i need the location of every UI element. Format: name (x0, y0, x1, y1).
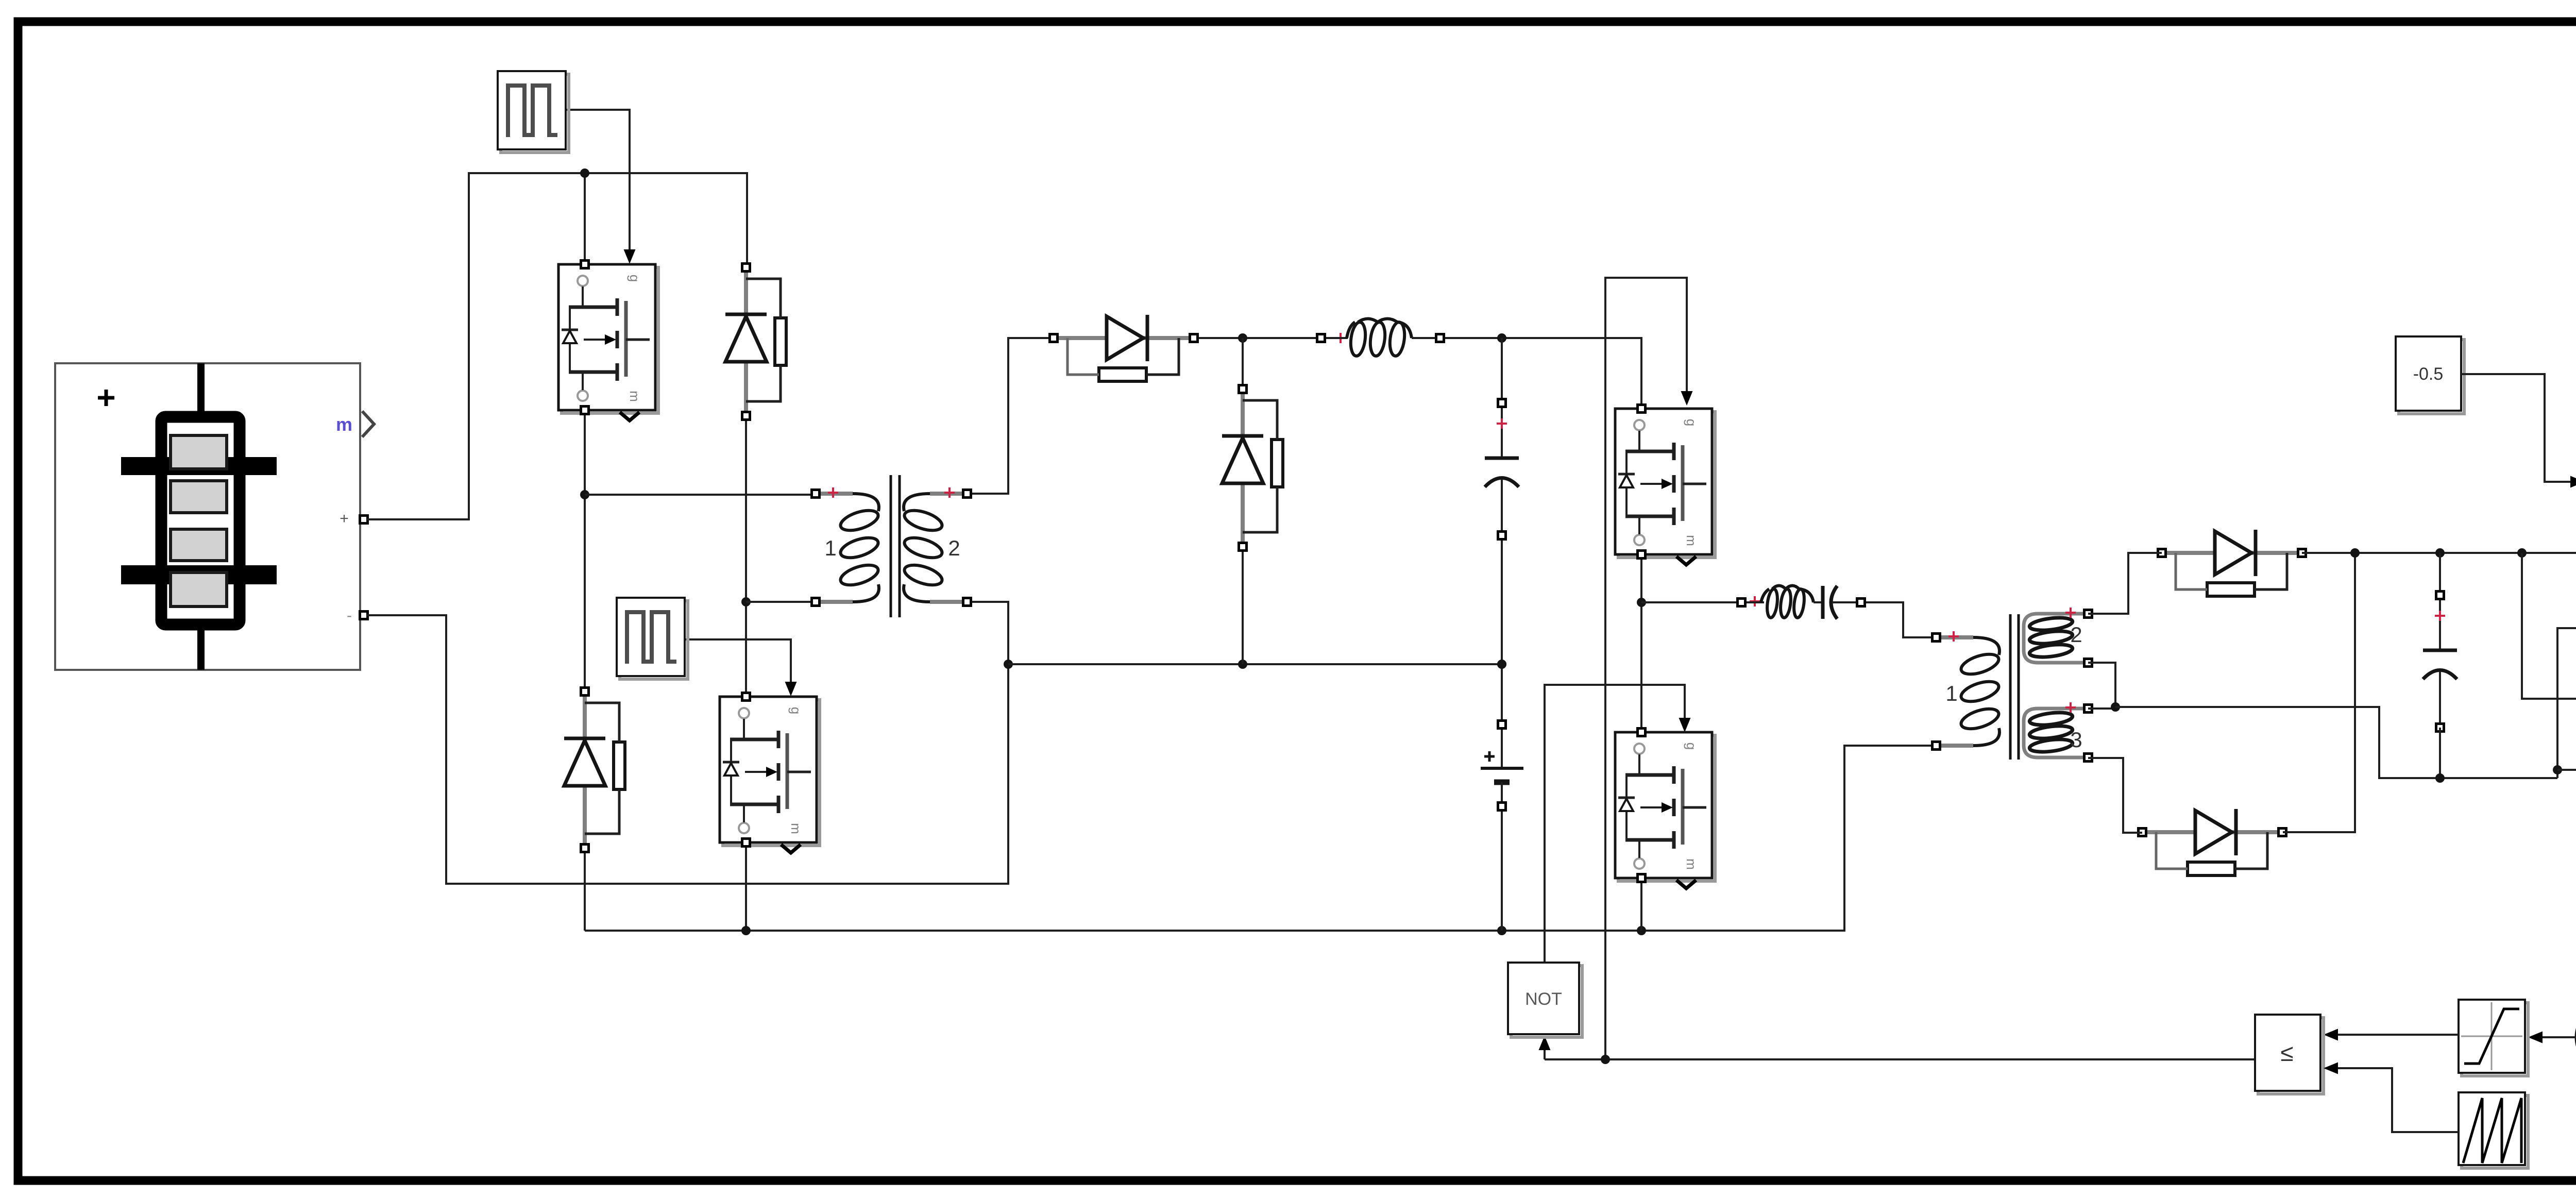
svg-text:2: 2 (2070, 622, 2082, 647)
svg-text:m: m (1684, 535, 1699, 546)
svg-text:1: 1 (1945, 681, 1957, 705)
svg-text:g: g (1684, 419, 1699, 426)
svg-text:-: - (347, 607, 352, 624)
svg-text:+: + (340, 510, 349, 527)
svg-text:g: g (627, 275, 642, 282)
svg-text:g: g (788, 707, 804, 714)
svg-text:1: 1 (824, 536, 836, 560)
svg-text:m: m (788, 823, 804, 834)
svg-text:-0.5: -0.5 (2413, 364, 2444, 384)
svg-text:m: m (627, 391, 642, 402)
svg-text:≤: ≤ (2280, 1039, 2293, 1066)
svg-text:3: 3 (2070, 728, 2082, 752)
svg-text:m: m (1684, 858, 1699, 870)
svg-text:NOT: NOT (1525, 989, 1562, 1009)
svg-text:g: g (1684, 743, 1699, 750)
svg-text:2: 2 (948, 536, 960, 560)
svg-text:m: m (336, 414, 352, 435)
